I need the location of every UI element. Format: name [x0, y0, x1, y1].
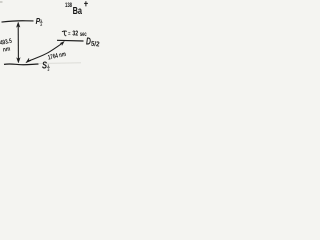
svg-text:Ba: Ba: [73, 6, 83, 17]
faint ruled guideline: [39, 62, 81, 65]
label S1/2: [42, 60, 50, 71]
svg-text:nm: nm: [2, 45, 11, 53]
svg-text:32: 32: [72, 29, 78, 38]
level S1/2 line: [4, 63, 39, 66]
svg-text:5/2: 5/2: [90, 41, 99, 49]
plus sign: [84, 1, 88, 6]
wire 493.5nm vertical double arrow S-P: [16, 22, 20, 63]
label D5/2: [86, 36, 100, 48]
tau: [62, 31, 67, 36]
background: [0, 0, 100, 74]
edge smudge: [0, 1, 3, 3]
svg-text:2: 2: [48, 68, 50, 72]
svg-text:138: 138: [65, 2, 72, 9]
label tau = 32 sec: [62, 29, 87, 38]
approx: [68, 33, 70, 35]
svg-text:2: 2: [40, 23, 42, 27]
level D5/2 line: [57, 39, 84, 42]
wire 1764nm diagonal double arrow S-D: [26, 41, 65, 63]
label 493.5 nm: [0, 38, 13, 54]
label 138Ba+: [65, 1, 88, 16]
level P1/2 line: [2, 21, 34, 22]
label P1/2: [36, 17, 43, 27]
